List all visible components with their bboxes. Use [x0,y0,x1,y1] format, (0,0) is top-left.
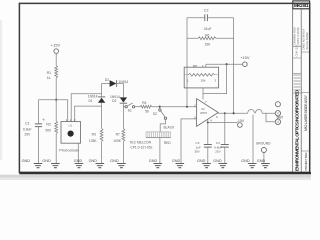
svg-text:D2: D2 [105,78,109,82]
label TEC MELCOR CP1.0-127-05L [129,141,152,150]
svg-text:S1: S1 [128,108,132,112]
wire: pin1 stub [67,100,69,122]
left edge scan streak [0,20,2,160]
svg-text:U1: U1 [69,124,73,128]
wire: R2 to ground [55,134,57,164]
ground under C1 [22,159,43,168]
svg-text:GND: GND [110,159,119,163]
wire: D1 to R3 [101,103,103,129]
resistor R1 1k [47,66,58,80]
wire: pin3 to D1 bottom [75,106,102,122]
svg-text:GND: GND [22,159,31,163]
photodiode module U1 [59,118,80,152]
wire: photodiode case to ground [77,143,79,163]
svg-text:35V: 35V [194,149,199,153]
svg-text:56: 56 [145,110,149,114]
svg-text:GND: GND [213,159,222,163]
svg-text:GND: GND [241,159,250,163]
svg-text:C2: C2 [204,8,209,12]
svg-text:SCALE NONE: SCALE NONE [305,32,309,50]
svg-text:Photodiode: Photodiode [59,148,79,152]
wire: pin2 to D1 top [71,94,101,122]
wire: feedback left vertical [186,18,188,107]
svg-text:GND: GND [257,159,266,163]
svg-text:25V: 25V [215,149,220,153]
svg-text:DRAWN: RJM: DRAWN: RJM [293,27,297,45]
svg-text:GND: GND [172,159,181,163]
connector J1 pins [275,102,283,125]
capacitor C1 6.8uF 25V (polarized) [23,118,45,136]
resistor R6 15K [187,33,234,46]
ground under hump tap [241,159,256,168]
capacitor C4 6.8uF 25V [214,141,229,153]
wire: pin4 to -15V [208,122,238,124]
svg-text:BLACK: BLACK [163,125,175,129]
wire: C2 top row [187,17,234,19]
switch S2 [153,107,167,120]
svg-text:D1: D1 [88,99,92,103]
svg-text:133K: 133K [89,139,98,143]
node junction feedback [186,106,188,108]
svg-text:S2: S2 [153,112,157,116]
wire: D3 to node C [122,103,124,128]
title block: revision box MK2 B1 [293,1,310,9]
node junction S2 [159,106,161,108]
svg-text:R7: R7 [116,132,120,136]
wire hop over (double hump) [248,109,262,113]
svg-text:R1: R1 [47,71,52,75]
svg-text:GND: GND [149,159,158,163]
title block: revision table rows [294,75,301,90]
potentiometer R5 20k [184,65,218,88]
svg-text:R6: R6 [205,33,209,37]
svg-text:15K: 15K [204,43,211,47]
wire: GROUND terminal to ground [263,153,265,164]
svg-text:ENVIRONMENTAL OPTICS INCORPORA: ENVIRONMENTAL OPTICS INCORPORATED [295,89,300,171]
title block: small info texts [293,27,309,57]
svg-text:R4: R4 [142,101,146,105]
node junction pin4 [207,121,209,123]
TEC element (hatched) [146,132,171,138]
svg-text:R2: R2 [46,123,51,127]
wire: R3 to ground [101,142,103,164]
wire: C1 branch down [38,100,40,124]
ground under photodiode [74,159,84,168]
svg-text:DATE 4-18-96: DATE 4-18-96 [296,27,300,44]
svg-text:R5: R5 [193,65,197,69]
wire: R7 to ground [122,142,124,164]
drawing frame border [19,3,309,172]
diode D3 1N914 [110,95,127,103]
wire: S2 to TEC black lead [160,119,165,131]
title block: column dividers [293,9,302,173]
svg-text:GND: GND [197,159,206,163]
svg-text:.01uF: .01uF [203,27,211,31]
wire: +15V to R1 [55,54,57,66]
svg-text:1N914: 1N914 [110,95,120,99]
ground under pin3 [172,159,184,168]
svg-text:TEC MELCOR: TEC MELCOR [129,141,151,145]
node junction +15V rail [226,63,228,65]
svg-text:GROUND: GROUND [256,141,271,145]
wire: D2 to D3 top [117,84,124,98]
wire: C1 to ground [38,127,40,164]
svg-text:20k: 20k [201,79,206,83]
wire: R1 to node [55,78,57,121]
wire: R4 to op-amp inverting input [152,106,197,108]
ground under GROUND terminal [257,159,270,168]
ground under R2 [42,159,59,168]
wire: +15V rail to R5 wiper [206,64,243,67]
diode D1 1N914 [88,95,106,104]
ground under C3 [197,159,211,168]
svg-text:1N914: 1N914 [88,95,98,99]
svg-text:100K: 100K [113,139,122,143]
wire: non-inverting input to ground [181,119,197,164]
wire: C3 to ground [207,147,209,163]
svg-text:CP1.0-127-05L: CP1.0-127-05L [130,146,153,150]
bottom scan shadow [0,175,311,180]
power terminal +15V (left) [51,43,61,54]
svg-text:C1: C1 [25,122,30,126]
wire: TEC red lead to ground [159,138,161,164]
svg-text:OUT: OUT [277,116,284,120]
resistor R3 133K [89,129,103,143]
svg-text:GND: GND [89,159,98,163]
svg-text:500: 500 [45,128,51,132]
node junction C4 [224,112,226,114]
power terminal -15V [237,119,245,127]
resistor R7 100K [113,129,125,143]
terminal GROUND [256,141,271,152]
wire: pin4 stub [207,119,209,122]
wire: rail drop to op-amp V+ [203,64,227,99]
svg-text:D3: D3 [112,99,116,103]
svg-text:+15V: +15V [240,55,250,60]
svg-text:GND: GND [42,159,51,163]
wire: D1 node to D2 [102,83,110,85]
wire: op-amp output [218,112,248,114]
svg-text:6.8uF: 6.8uF [23,128,31,132]
op-amp U2 OP07 [194,99,218,127]
diode D2 1N914 [105,78,129,87]
paper background [0,0,311,180]
wire: C4 branch [224,113,226,144]
svg-text:R3: R3 [92,132,96,136]
resistor R4 56 [140,101,152,114]
svg-text:CHK: EO: CHK: EO [294,45,298,56]
wire: feedback right vertical [233,18,235,114]
ground under TEC [149,159,162,168]
svg-text:1k: 1k [47,76,51,80]
switch S1 [123,103,140,112]
svg-text:OP07: OP07 [200,111,208,115]
svg-text:PROJECT MK2: PROJECT MK2 [304,152,308,170]
svg-text:RED: RED [164,141,172,145]
title block: divider lines [293,46,310,151]
svg-text:2: 2 [202,65,204,69]
capacitor C2 .01uF [203,8,211,30]
wire: to connector J1 [262,113,275,122]
power terminal +15V (right) [240,55,250,67]
wire: D2 node down to D1 [101,84,103,97]
resistor R2 500 [45,121,57,134]
wire: C3 branch [207,123,209,145]
svg-text:MK2 LASER DIODE ASSY: MK2 LASER DIODE ASSY [304,94,308,131]
svg-text:GND: GND [74,159,83,163]
node junction feedback-output [233,112,235,114]
ground under R7 [110,159,126,168]
capacitor C3 .1uF 35V [194,141,211,153]
node junction main [55,99,57,101]
svg-text:+15V: +15V [51,43,61,48]
wire: C4 to ground [224,147,226,163]
wire: node horizontal to C1 and pin1 [39,99,68,101]
ground under C4 [213,159,227,168]
wire: hump tap to ground [252,115,254,164]
ground under R3 [89,159,105,168]
svg-text:25V: 25V [24,132,31,136]
